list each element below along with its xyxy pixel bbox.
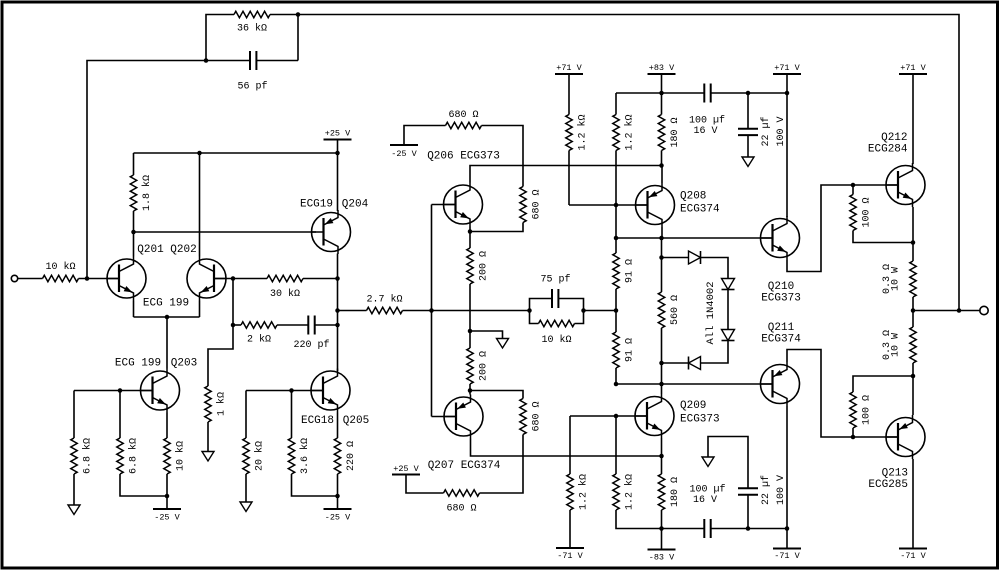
svg-text:1.8 kΩ: 1.8 kΩ: [141, 175, 153, 211]
svg-text:680 Ω: 680 Ω: [532, 189, 543, 219]
svg-text:ECG 199: ECG 199: [143, 298, 189, 310]
svg-text:ECG 199: ECG 199: [115, 358, 161, 370]
svg-text:-83 V: -83 V: [649, 553, 675, 563]
svg-text:-71 V: -71 V: [774, 551, 800, 561]
svg-text:100 µf: 100 µf: [689, 115, 725, 127]
svg-text:Q203: Q203: [171, 358, 197, 370]
svg-text:10 kΩ: 10 kΩ: [45, 261, 75, 273]
svg-text:+25 V: +25 V: [325, 129, 351, 139]
svg-text:+25 V: +25 V: [393, 464, 419, 474]
svg-text:20 kΩ: 20 kΩ: [254, 441, 266, 471]
svg-text:-25 V: -25 V: [325, 513, 351, 523]
svg-text:-25 V: -25 V: [391, 149, 417, 159]
svg-text:Q208: Q208: [680, 191, 706, 203]
svg-text:Q210: Q210: [768, 281, 794, 293]
svg-text:ECG374: ECG374: [761, 334, 801, 346]
svg-text:Q201 Q202: Q201 Q202: [137, 244, 196, 256]
svg-text:10 W: 10 W: [891, 333, 902, 357]
svg-text:200 Ω: 200 Ω: [479, 251, 490, 281]
svg-text:1.2 kΩ: 1.2 kΩ: [578, 474, 590, 510]
svg-text:680 Ω: 680 Ω: [532, 401, 543, 431]
svg-text:30 kΩ: 30 kΩ: [270, 288, 300, 300]
svg-text:All 1N4002: All 1N4002: [705, 281, 717, 344]
svg-text:ECG374: ECG374: [680, 204, 720, 216]
svg-text:180 Ω: 180 Ω: [670, 477, 681, 507]
svg-text:ECG284: ECG284: [868, 144, 908, 156]
svg-text:-25 V: -25 V: [154, 513, 180, 523]
svg-text:ECG18: ECG18: [301, 415, 334, 427]
svg-text:+71 V: +71 V: [556, 63, 582, 73]
svg-text:180 Ω: 180 Ω: [670, 117, 681, 147]
svg-text:Q211: Q211: [768, 322, 795, 334]
svg-text:-71 V: -71 V: [900, 551, 926, 561]
svg-text:ECG285: ECG285: [868, 479, 908, 491]
svg-text:Q207 ECG374: Q207 ECG374: [428, 460, 501, 472]
svg-text:Q204: Q204: [342, 199, 369, 211]
svg-text:10 kΩ: 10 kΩ: [541, 334, 571, 346]
svg-text:3.6 kΩ: 3.6 kΩ: [299, 438, 311, 474]
svg-text:1 kΩ: 1 kΩ: [216, 392, 228, 416]
svg-text:Q212: Q212: [881, 132, 907, 144]
svg-text:Q213: Q213: [882, 468, 908, 480]
svg-text:16 V: 16 V: [693, 126, 717, 137]
svg-text:2.7 kΩ: 2.7 kΩ: [366, 294, 402, 306]
svg-text:100 µf: 100 µf: [689, 484, 725, 496]
svg-text:ECG373: ECG373: [761, 293, 801, 305]
svg-text:Q205: Q205: [343, 415, 369, 427]
svg-text:10 kΩ: 10 kΩ: [175, 441, 187, 471]
svg-text:56 pf: 56 pf: [237, 81, 267, 93]
svg-text:200 Ω: 200 Ω: [479, 351, 490, 381]
svg-text:ECG373: ECG373: [680, 414, 720, 426]
svg-text:1.2 kΩ: 1.2 kΩ: [624, 474, 636, 510]
svg-text:22 µf: 22 µf: [760, 475, 772, 505]
svg-text:6.8 kΩ: 6.8 kΩ: [128, 438, 140, 474]
svg-text:Q206 ECG373: Q206 ECG373: [427, 151, 500, 163]
svg-text:+71 V: +71 V: [900, 63, 926, 73]
svg-text:100 Ω: 100 Ω: [862, 395, 873, 425]
svg-text:220 Ω: 220 Ω: [346, 441, 357, 471]
svg-text:1.2 kΩ: 1.2 kΩ: [624, 114, 636, 150]
svg-text:16 V: 16 V: [693, 495, 717, 506]
svg-text:+83 V: +83 V: [649, 63, 675, 73]
svg-text:91 Ω: 91 Ω: [625, 338, 636, 362]
svg-text:100 V: 100 V: [776, 116, 787, 146]
svg-text:560 Ω: 560 Ω: [670, 295, 681, 325]
svg-text:220 pf: 220 pf: [293, 339, 329, 351]
svg-text:-71 V: -71 V: [557, 551, 583, 561]
svg-text:22 µf: 22 µf: [760, 116, 772, 146]
svg-text:1.2 kΩ: 1.2 kΩ: [577, 114, 589, 150]
svg-text:100 V: 100 V: [776, 475, 787, 505]
svg-text:91 Ω: 91 Ω: [625, 259, 636, 283]
svg-text:6.8 kΩ: 6.8 kΩ: [82, 438, 94, 474]
svg-text:Q209: Q209: [680, 400, 706, 412]
svg-text:10 W: 10 W: [891, 267, 902, 291]
svg-text:36 kΩ: 36 kΩ: [237, 23, 267, 35]
svg-text:ECG19: ECG19: [300, 199, 333, 211]
svg-text:680 Ω: 680 Ω: [448, 110, 478, 121]
svg-text:+71 V: +71 V: [774, 63, 800, 73]
svg-text:680 Ω: 680 Ω: [446, 504, 476, 515]
svg-text:2 kΩ: 2 kΩ: [247, 334, 271, 346]
svg-text:75 pf: 75 pf: [540, 274, 570, 286]
svg-text:100 Ω: 100 Ω: [862, 197, 873, 227]
